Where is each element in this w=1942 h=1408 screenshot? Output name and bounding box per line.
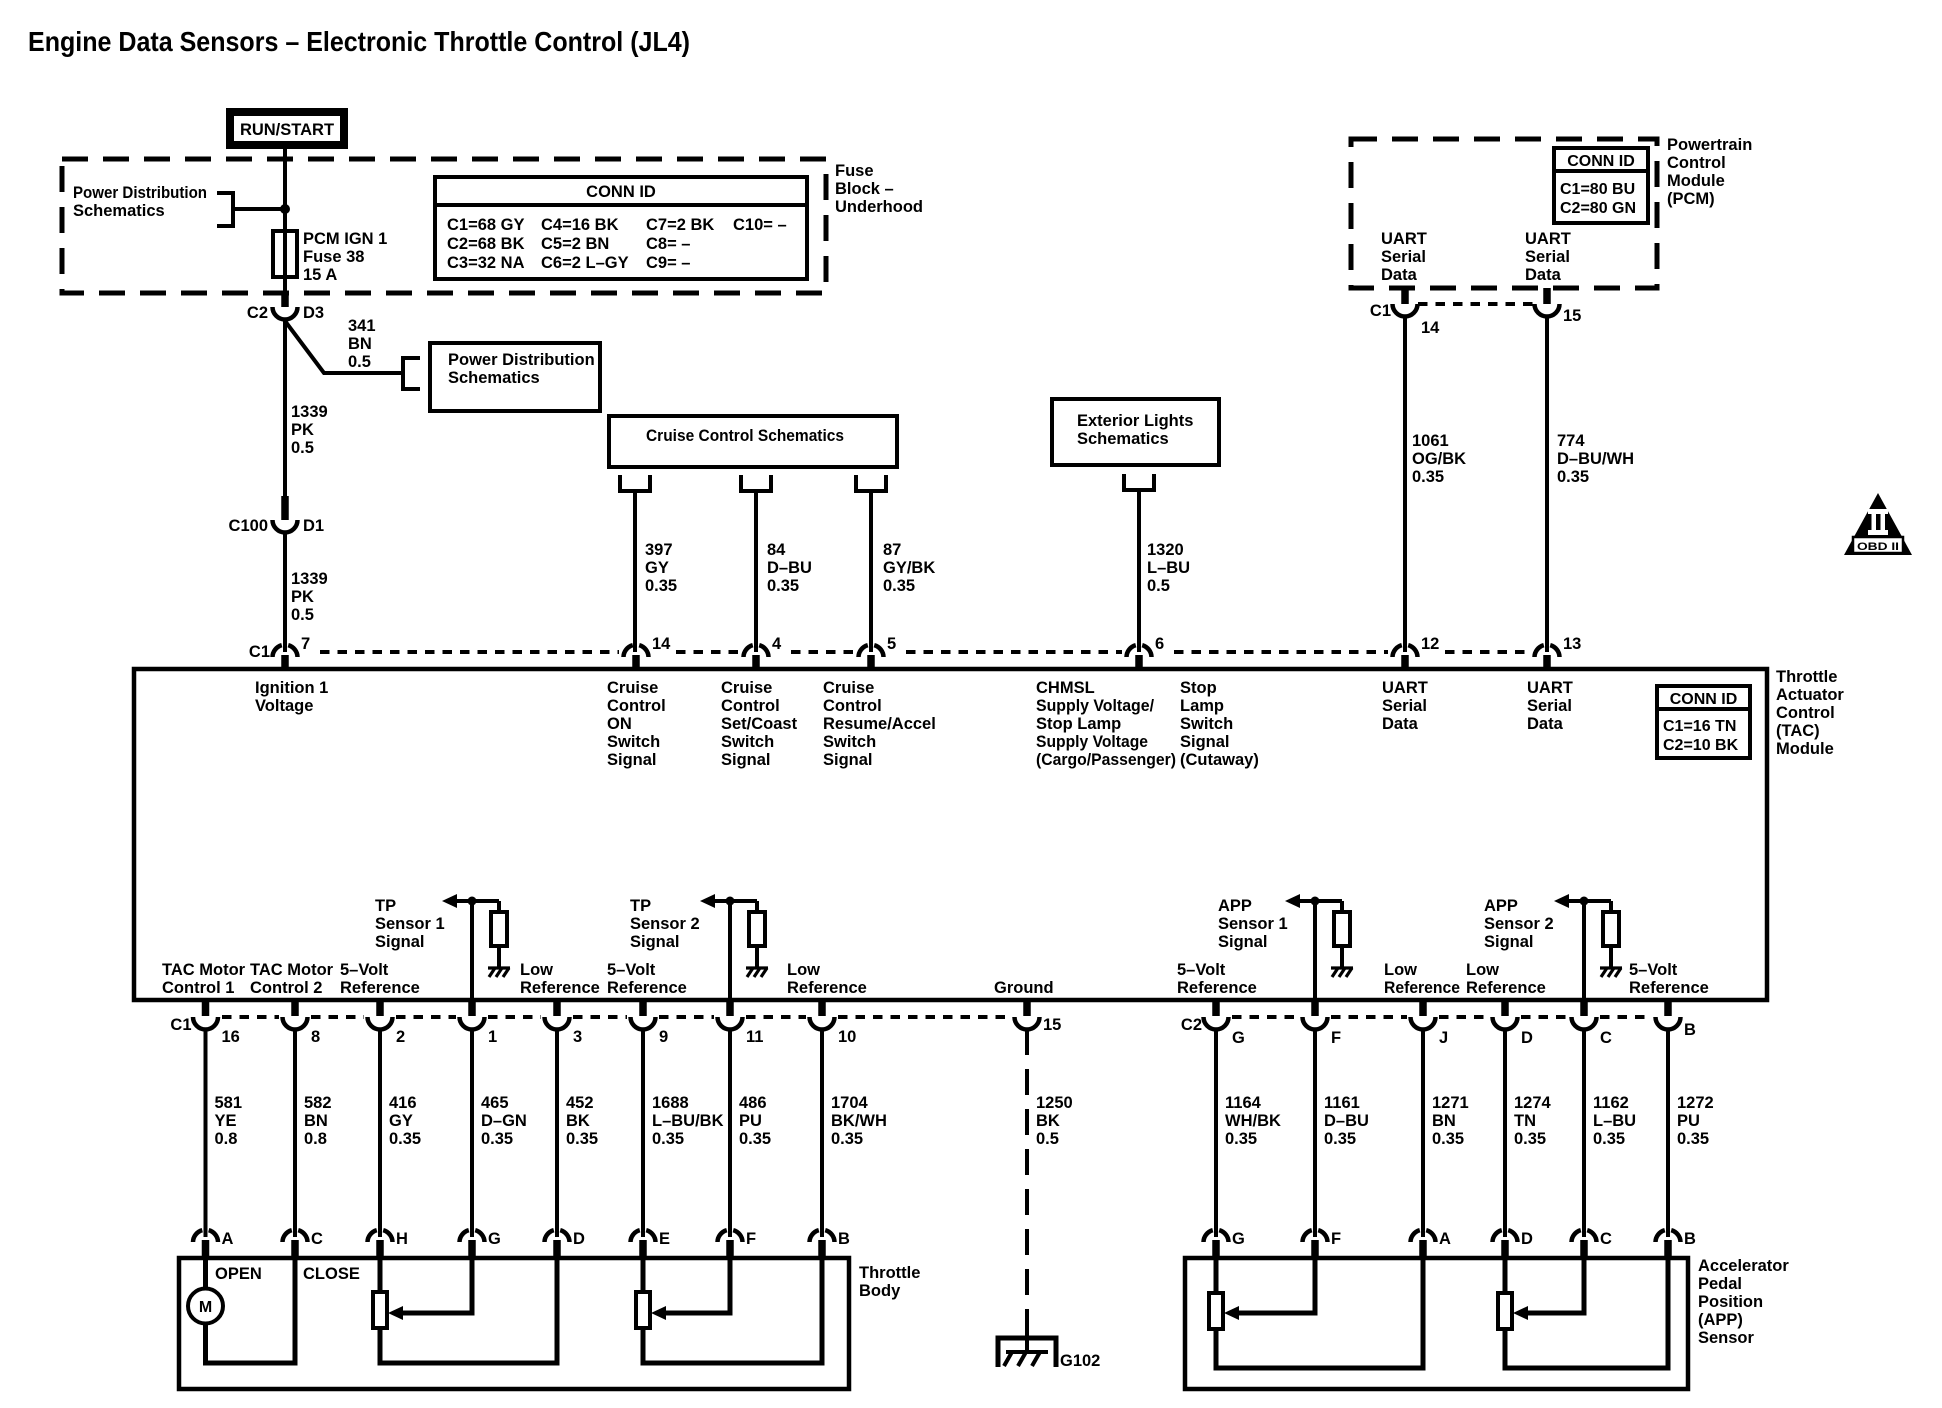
- svg-text:5: 5: [887, 635, 896, 653]
- svg-text:TAC MotorControl 1: TAC MotorControl 1: [162, 961, 246, 997]
- wire 1339 PK upper segment: [283, 319, 287, 504]
- connector APP sensor pin G: [1204, 1230, 1245, 1258]
- wire 1704: [820, 1029, 824, 1237]
- chassis ground TP sensor 2 signal: [746, 968, 768, 977]
- connector TAC pin 11 (bottom): [718, 1000, 764, 1046]
- connector TAC pin J (bottom): [1411, 1000, 1449, 1047]
- connector TAC pin 3 (bottom): [545, 1000, 583, 1046]
- svg-text:CLOSE: CLOSE: [303, 1265, 360, 1283]
- svg-text:2: 2: [396, 1028, 405, 1046]
- svg-text:RUN/START: RUN/START: [240, 121, 334, 139]
- svg-text:G: G: [1232, 1230, 1245, 1248]
- bracket cruise Set/Coast switch: [741, 475, 771, 491]
- wire 1271: [1421, 1029, 1425, 1237]
- potentiometer TP sensor 2: [641, 1258, 646, 1292]
- svg-text:CONN ID: CONN ID: [586, 183, 656, 201]
- bracket exterior lights: [1124, 474, 1154, 490]
- wire 1688: [641, 1029, 645, 1237]
- connector APP sensor pin B: [1656, 1230, 1697, 1258]
- connector PCM C1 pin 14: [1370, 288, 1440, 337]
- pull resistor TP sensor 1 signal: [497, 901, 501, 912]
- wiper arrow TP sensor 2 signal: [700, 894, 715, 908]
- svg-text:D: D: [1521, 1230, 1533, 1248]
- wire 774 D-BU/WH: [1545, 316, 1549, 652]
- svg-text:7: 7: [301, 635, 310, 653]
- svg-text:C10= –: C10= –: [733, 216, 787, 234]
- potentiometer APP sensor 1: [1214, 1258, 1219, 1293]
- connector TAC C1 pin 13 (top): [1535, 635, 1582, 669]
- svg-text:C1: C1: [249, 643, 270, 661]
- wire 1164: [1214, 1029, 1218, 1237]
- svg-text:C: C: [311, 1230, 323, 1248]
- connector PCM C1 pin 15: [1535, 288, 1582, 325]
- svg-text:F: F: [1331, 1029, 1341, 1047]
- wire 581: [204, 1029, 208, 1237]
- svg-text:D3: D3: [303, 304, 324, 322]
- connector throttle body pin H: [368, 1230, 408, 1258]
- connector APP sensor pin D: [1493, 1230, 1534, 1258]
- svg-text:TAC MotorControl 2: TAC MotorControl 2: [250, 961, 334, 997]
- internal wire APP sensor 2 signal to pin: [1569, 901, 1611, 1000]
- wire 486: [728, 1029, 732, 1237]
- svg-text:B: B: [1684, 1230, 1696, 1248]
- wire 1272: [1666, 1029, 1670, 1237]
- throttle actuator control TAC module box: [134, 669, 1767, 1000]
- svg-text:E: E: [659, 1230, 670, 1248]
- ground G102: [998, 1330, 1056, 1367]
- connector throttle body pin F: [718, 1230, 757, 1258]
- svg-text:C2: C2: [247, 304, 268, 322]
- svg-text:D: D: [573, 1230, 585, 1248]
- switch feed RUN/START: [226, 108, 348, 149]
- connector TAC pin 10 (bottom): [810, 1000, 857, 1046]
- connector TAC pin G (bottom): [1181, 1000, 1245, 1047]
- svg-text:M: M: [199, 1299, 212, 1316]
- bracket cruise Resume/Accel switch: [856, 475, 886, 491]
- junction dot APP sensor 1 signal: [1311, 897, 1320, 906]
- svg-text:C: C: [1600, 1029, 1612, 1047]
- svg-text:CONN ID: CONN ID: [1670, 691, 1738, 708]
- bracket to Power Distribution Schematics box: [403, 358, 420, 389]
- connector TAC pin B (bottom): [1656, 1000, 1697, 1039]
- svg-text:C: C: [1600, 1230, 1612, 1248]
- connector TAC pin F (bottom): [1303, 1000, 1342, 1047]
- connector TAC C1 pin 4 (top): [744, 635, 783, 669]
- connector TAC pin 2 (bottom): [368, 1000, 406, 1046]
- potentiometer APP sensor 2: [1503, 1258, 1508, 1293]
- chassis ground APP sensor 1 signal: [1331, 968, 1353, 977]
- wire 1320 L-BU: [1137, 490, 1141, 652]
- svg-text:J: J: [1439, 1029, 1448, 1047]
- svg-text:G: G: [488, 1230, 501, 1248]
- wire 1161: [1313, 1029, 1317, 1237]
- wiper arrow APP sensor 2: [1513, 1306, 1528, 1320]
- connector TAC C1 pin 5 (top): [859, 635, 897, 669]
- svg-text:OBD II: OBD II: [1857, 541, 1899, 553]
- svg-text:A: A: [222, 1230, 234, 1248]
- wire 87 GY/BK: [869, 491, 873, 652]
- internal wire TP sensor 2 signal to pin: [715, 901, 757, 1000]
- table CONN ID (PCM): [1554, 148, 1648, 223]
- internal wire APP sensor 1 signal to pin: [1300, 901, 1342, 1000]
- svg-text:C1: C1: [170, 1016, 191, 1034]
- chassis ground APP sensor 2 signal: [1600, 968, 1622, 977]
- box Cruise Control Schematics: [609, 416, 897, 467]
- junction dot TP sensor 2 signal: [726, 897, 735, 906]
- pull resistor APP sensor 1 signal: [1340, 901, 1344, 912]
- box accelerator pedal position sensor: [1185, 1258, 1688, 1389]
- wire 84 D-BU: [754, 491, 758, 652]
- fuse 38 symbol: [273, 231, 297, 277]
- svg-text:13: 13: [1563, 635, 1581, 653]
- wiper arrow APP sensor 1 signal: [1285, 894, 1300, 908]
- connector APP sensor pin F: [1303, 1230, 1342, 1258]
- svg-text:3: 3: [573, 1028, 582, 1046]
- svg-text:A: A: [1439, 1230, 1451, 1248]
- junction dot at ignition feed: [280, 204, 290, 214]
- svg-text:11: 11: [746, 1028, 763, 1046]
- pull resistor APP sensor 2 signal: [1609, 901, 1613, 912]
- wire 1250 BK (dashed to G102): [1025, 1029, 1029, 1334]
- bracket to Power Distribution Schematics: [217, 193, 285, 226]
- svg-text:15: 15: [1563, 307, 1581, 325]
- pull resistor TP sensor 2 signal: [755, 901, 759, 912]
- internal wire TP sensor 1 signal to pin: [457, 901, 499, 1000]
- connector TAC C1 pin 6 (top): [1127, 635, 1165, 669]
- box throttle body: [179, 1258, 849, 1389]
- svg-text:F: F: [746, 1230, 756, 1248]
- wire 1274: [1503, 1029, 1507, 1237]
- connector TAC pin 8 (bottom): [283, 1000, 321, 1046]
- svg-text:8: 8: [311, 1028, 320, 1046]
- chassis ground TP sensor 1 signal: [488, 968, 510, 977]
- svg-text:G: G: [1232, 1029, 1245, 1047]
- svg-text:12: 12: [1421, 635, 1439, 653]
- junction dot TP sensor 1 signal: [468, 897, 477, 906]
- svg-text:C100: C100: [229, 517, 268, 535]
- connector throttle body pin E: [631, 1230, 671, 1258]
- wire 397 GY: [633, 491, 637, 652]
- svg-text:Cruise Control Schematics: Cruise Control Schematics: [646, 427, 844, 445]
- connector throttle body pin A: [193, 1230, 234, 1258]
- connector TAC C1 pin 7 (top): [249, 635, 310, 669]
- TAC motor M: [188, 1289, 223, 1324]
- svg-text:D: D: [1521, 1029, 1533, 1047]
- wire 452: [555, 1029, 559, 1237]
- svg-text:G102: G102: [1060, 1352, 1100, 1370]
- wire 582: [293, 1029, 297, 1237]
- connector TAC pin 1 (bottom): [460, 1000, 498, 1046]
- connector TAC C1 pin 14 (top): [624, 635, 672, 669]
- svg-text:9: 9: [659, 1028, 668, 1046]
- powertrain control module dashed box: [1351, 139, 1657, 288]
- table CONN ID (TAC): [1657, 686, 1750, 758]
- wire 416: [378, 1029, 382, 1237]
- wire motor open/close loop: [206, 1258, 296, 1363]
- connector throttle body pin D: [545, 1230, 586, 1258]
- wiper arrow APP sensor 2 signal: [1554, 894, 1569, 908]
- dashed connector line TAC C2 (bottom): [1232, 1015, 1299, 1019]
- connector C2 D3: [247, 293, 324, 322]
- connector throttle body pin B: [810, 1230, 851, 1258]
- svg-text:1: 1: [488, 1028, 497, 1046]
- svg-text:Engine Data Sensors – Electron: Engine Data Sensors – Electronic Throttl…: [28, 26, 690, 57]
- connector TAC pin 16 (bottom): [170, 1000, 239, 1046]
- connector APP sensor pin C: [1572, 1230, 1613, 1258]
- connector throttle body pin C: [283, 1230, 324, 1258]
- svg-text:H: H: [396, 1230, 408, 1248]
- svg-text:D1: D1: [303, 517, 324, 535]
- svg-text:16: 16: [222, 1028, 240, 1046]
- dashed connector line PCM C1: [1418, 302, 1534, 306]
- connector TAC pin D (bottom): [1493, 1000, 1534, 1047]
- dashed connector line TAC C1 (top): [320, 650, 619, 654]
- fuse block underhood dashed box: [62, 159, 826, 293]
- wire 341 BN branch: [285, 321, 403, 373]
- svg-text:14: 14: [1421, 319, 1440, 337]
- svg-text:B: B: [1684, 1021, 1696, 1039]
- connector TAC pin 15 (bottom): [1015, 1000, 1062, 1034]
- svg-text:F: F: [1331, 1230, 1341, 1248]
- wiper arrow APP sensor 1: [1224, 1306, 1239, 1320]
- svg-text:B: B: [838, 1230, 850, 1248]
- wire 1061 OG/BK: [1403, 316, 1407, 652]
- svg-text:14: 14: [652, 635, 671, 653]
- svg-text:C1=68 GYC2=68 BKC3=32 NA: C1=68 GYC2=68 BKC3=32 NA: [447, 216, 525, 272]
- svg-text:4: 4: [772, 635, 782, 653]
- svg-text:OPEN: OPEN: [215, 1265, 262, 1283]
- svg-text:C1: C1: [1370, 302, 1391, 320]
- svg-text:15: 15: [1043, 1016, 1061, 1034]
- potentiometer TP sensor 1: [378, 1258, 383, 1292]
- OBD II symbol: [1844, 493, 1912, 555]
- connector TAC pin 9 (bottom): [631, 1000, 669, 1046]
- svg-text:CONN ID: CONN ID: [1567, 153, 1635, 170]
- wire RUN/START to fuse 38: [283, 149, 287, 293]
- bracket cruise ON switch: [620, 475, 650, 491]
- wiper arrow TP sensor 1: [388, 1306, 403, 1320]
- svg-text:Ground: Ground: [994, 979, 1054, 997]
- connector C100 D1: [229, 496, 325, 535]
- connector APP sensor pin A: [1411, 1230, 1452, 1258]
- connector TAC pin C (bottom): [1572, 1000, 1613, 1047]
- wiper arrow TP sensor 2: [651, 1306, 666, 1320]
- wire 465: [470, 1029, 474, 1237]
- table CONN ID (fuse block): [435, 177, 807, 279]
- box Exterior Lights Schematics: [1052, 399, 1219, 465]
- wire 1162: [1582, 1029, 1586, 1237]
- box Power Distribution Schematics: [430, 343, 600, 411]
- svg-text:10: 10: [838, 1028, 856, 1046]
- wiper arrow TP sensor 1 signal: [442, 894, 457, 908]
- connector throttle body pin G: [460, 1230, 501, 1258]
- junction dot APP sensor 2 signal: [1580, 897, 1589, 906]
- dashed connector line TAC C1 (bottom): [222, 1015, 279, 1019]
- svg-text:C2: C2: [1181, 1016, 1202, 1034]
- svg-text:6: 6: [1155, 635, 1164, 653]
- wire 1339 PK lower segment: [283, 532, 287, 652]
- connector TAC C1 pin 12 (top): [1393, 635, 1440, 669]
